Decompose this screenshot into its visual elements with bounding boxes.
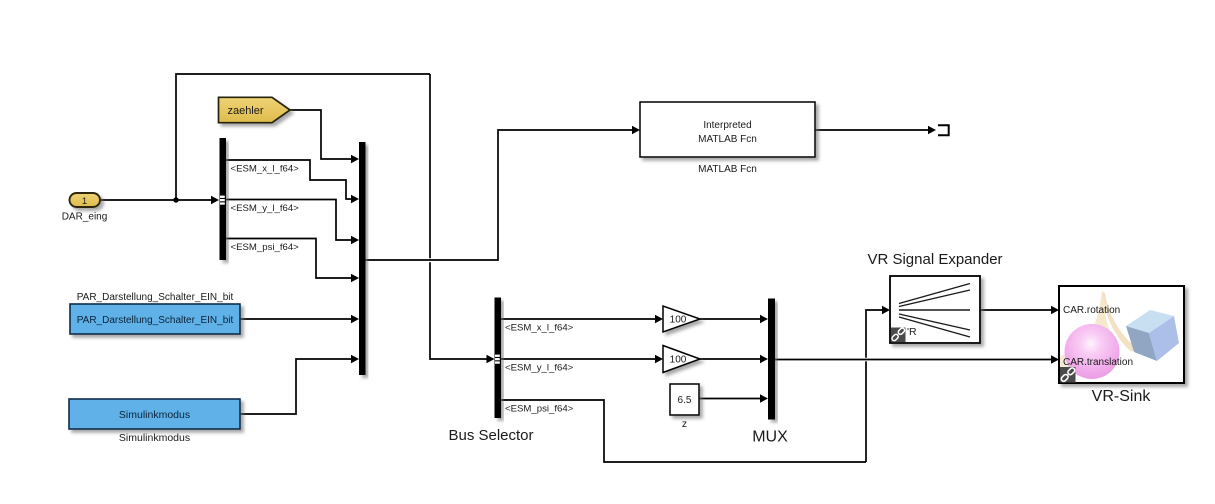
arrowhead Mux2 in1 bbox=[760, 315, 768, 323]
svg-text:<ESM_x_l_f64>: <ESM_x_l_f64> bbox=[231, 164, 300, 175]
block VR Signal Expander bbox=[890, 276, 980, 343]
wire MATLAB Fcn to terminator bbox=[815, 129, 928, 131]
svg-text:<ESM_psi_f64>: <ESM_psi_f64> bbox=[505, 404, 574, 415]
arrowhead Mux1 in1 bbox=[351, 155, 359, 163]
block VR-Sink bbox=[1059, 286, 1184, 383]
arrowhead into Gain1 bbox=[655, 315, 663, 323]
block Interpreted MATLAB Fcn bbox=[640, 102, 815, 157]
svg-text:MUX: MUX bbox=[752, 429, 788, 446]
svg-text:DAR_eing: DAR_eing bbox=[62, 212, 108, 223]
svg-text:z: z bbox=[682, 418, 687, 430]
arrowhead Mux1 in4 bbox=[351, 274, 359, 282]
wire Bus Selector1 out2 to Mux1 in3 bbox=[226, 200, 351, 241]
arrowhead into Bus Selector1 bbox=[211, 196, 219, 204]
beige patch left bbox=[1056, 354, 1078, 378]
ARROWHEADS bbox=[211, 126, 1059, 403]
svg-text:100: 100 bbox=[670, 315, 687, 326]
arrowhead into MATLAB Fcn bbox=[632, 126, 640, 134]
arrowhead into Bus Selector2 bbox=[487, 355, 495, 363]
svg-text:MATLAB Fcn: MATLAB Fcn bbox=[698, 164, 757, 175]
bus selector 1 input icon bbox=[220, 196, 225, 205]
junction dot bbox=[173, 197, 178, 202]
wire Bus Selector2 out1 to Gain1 bbox=[501, 318, 655, 320]
bus selector 2 bar bbox=[495, 298, 502, 419]
svg-text:Bus Selector: Bus Selector bbox=[448, 427, 533, 444]
bus selector 1 bar bbox=[220, 138, 227, 260]
svg-text:Interpreted: Interpreted bbox=[703, 120, 751, 131]
wire inport to Bus Selector1 bbox=[100, 199, 212, 201]
arrowhead into VR Signal Expander bbox=[882, 306, 890, 314]
cube left face bbox=[1126, 326, 1157, 361]
sphere bbox=[1065, 324, 1120, 379]
wire VR Signal Expander to VR-Sink CAR.rotation bbox=[980, 309, 1051, 311]
svg-text:<ESM_y_l_f64>: <ESM_y_l_f64> bbox=[231, 203, 300, 214]
arrowhead into Gain2 bbox=[655, 355, 663, 363]
wire feedback up/over from junction to Bus Selector2 input bbox=[176, 74, 430, 200]
arrowhead Mux2 in2 bbox=[760, 355, 768, 363]
svg-text:PAR_Darstellung_Schalter_EIN_b: PAR_Darstellung_Schalter_EIN_bit bbox=[77, 292, 234, 303]
block PAR_Darstellung_Schalter_EIN_bit bbox=[70, 304, 240, 334]
constant block 6.5 bbox=[670, 384, 699, 415]
cone backdrop bbox=[1087, 291, 1115, 346]
svg-text:<ESM_psi_f64>: <ESM_psi_f64> bbox=[231, 242, 300, 253]
svg-text:'R: 'R bbox=[907, 326, 917, 338]
inport 1 DAR_eing bbox=[70, 193, 101, 207]
wire Mux2 out to VR-Sink CAR.translation bbox=[775, 359, 1051, 361]
arrowhead Mux2 in3 bbox=[760, 394, 768, 402]
svg-text:VR Signal Expander: VR Signal Expander bbox=[867, 251, 1002, 268]
arrowhead into VR-Sink rotation bbox=[1051, 306, 1059, 314]
arrowhead Mux1 in2 bbox=[351, 195, 359, 203]
wire psi vertical up (gap at crossing y=359.5) bbox=[865, 361, 867, 462]
arrowhead Mux1 in6 bbox=[351, 355, 359, 363]
block Simulinkmodus bbox=[69, 399, 240, 429]
wire Bus Selector1 out1 to Mux1 in2 bbox=[226, 160, 351, 199]
VR expander fan lines bbox=[899, 284, 970, 338]
svg-text:zaehler: zaehler bbox=[227, 105, 263, 117]
svg-text:CAR.translation: CAR.translation bbox=[1063, 357, 1133, 368]
svg-text:<ESM_x_l_f64>: <ESM_x_l_f64> bbox=[505, 323, 574, 334]
wire Bus Selector1 out3 to Mux1 in4 bbox=[226, 239, 351, 279]
svg-text:100: 100 bbox=[670, 355, 687, 366]
wire Gain2 to Mux2 in2 bbox=[700, 358, 760, 360]
arrowhead into terminator bbox=[928, 126, 936, 134]
VR expander link icon bbox=[891, 328, 906, 343]
VR-Sink link icon bbox=[1060, 367, 1076, 383]
svg-text:<ESM_y_l_f64>: <ESM_y_l_f64> bbox=[505, 363, 574, 374]
wire Simulinkmodus to Mux1 in6 bbox=[240, 359, 351, 414]
bus selector 2 input icon bbox=[495, 355, 500, 364]
wire Bus Selector2 out3 psi down and around to VR Signal Expander bbox=[501, 400, 866, 462]
mux 1 bar bbox=[359, 142, 366, 375]
svg-text:MATLAB Fcn: MATLAB Fcn bbox=[698, 134, 757, 145]
wire 6.5 block to Mux2 in3 bbox=[699, 398, 760, 400]
wire zaehler to Mux1 in1 bbox=[290, 110, 351, 159]
svg-text:Simulinkmodus: Simulinkmodus bbox=[119, 432, 190, 444]
wire Mux1 out to MATLAB Fcn bbox=[365, 130, 632, 260]
arrowhead Mux1 in5 bbox=[351, 315, 359, 323]
svg-text:Simulinkmodus: Simulinkmodus bbox=[119, 409, 190, 421]
svg-text:1: 1 bbox=[82, 196, 87, 207]
wire feedback vertical (gap at crossing y=260) bbox=[429, 74, 431, 258]
terminator bbox=[938, 125, 949, 135]
arrowhead Mux1 in3 bbox=[351, 236, 359, 244]
wire Bus Selector2 out2 to Gain2 bbox=[501, 358, 655, 360]
svg-text:CAR.rotation: CAR.rotation bbox=[1063, 305, 1120, 316]
gain 100 upper bbox=[663, 306, 700, 332]
cube top face bbox=[1126, 310, 1174, 333]
cube right face bbox=[1149, 316, 1179, 361]
svg-text:PAR_Darstellung_Schalter_EIN_b: PAR_Darstellung_Schalter_EIN_bit bbox=[77, 315, 234, 326]
goto tag zaehler bbox=[219, 97, 291, 122]
svg-text:VR-Sink: VR-Sink bbox=[1092, 388, 1152, 405]
gain 100 lower bbox=[663, 346, 700, 373]
arrowhead into VR-Sink translation bbox=[1051, 355, 1059, 363]
wire Gain1 to Mux2 in1 bbox=[700, 318, 760, 320]
mux 2 bar bbox=[768, 299, 775, 420]
svg-text:6.5: 6.5 bbox=[678, 395, 692, 406]
wire PAR block to Mux1 in5 bbox=[240, 318, 351, 320]
